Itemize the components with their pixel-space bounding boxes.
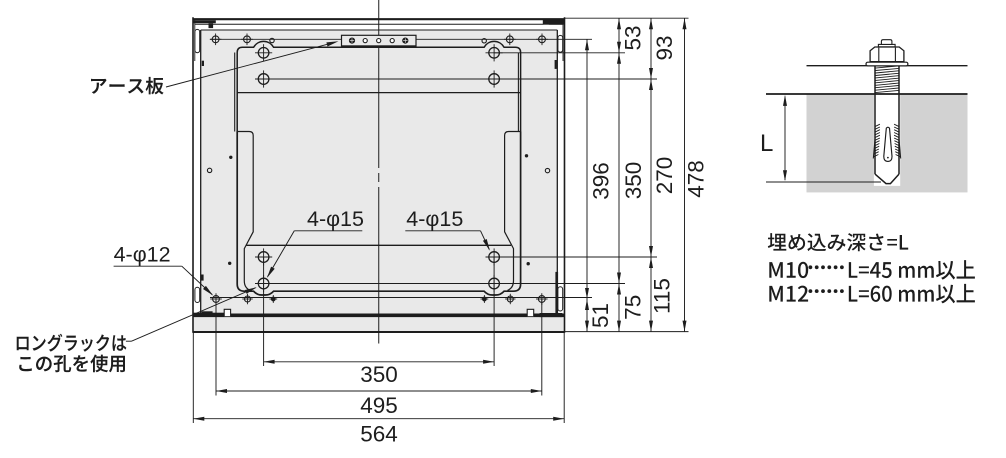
svg-text:L: L [760,130,773,157]
svg-text:4-φ15: 4-φ15 [406,207,463,231]
svg-text:478: 478 [684,160,709,198]
svg-text:4-φ15: 4-φ15 [307,207,364,231]
svg-text:495: 495 [360,393,398,418]
svg-text:51: 51 [588,303,613,328]
svg-text:4-φ12: 4-φ12 [114,243,171,267]
svg-text:115: 115 [649,278,674,314]
svg-text:350: 350 [621,162,646,200]
svg-text:93: 93 [652,35,677,60]
svg-text:53: 53 [620,25,645,50]
svg-text:270: 270 [652,157,677,195]
svg-text:564: 564 [360,421,398,446]
svg-text:75: 75 [620,295,645,320]
svg-text:350: 350 [360,362,398,387]
svg-text:396: 396 [589,162,614,200]
